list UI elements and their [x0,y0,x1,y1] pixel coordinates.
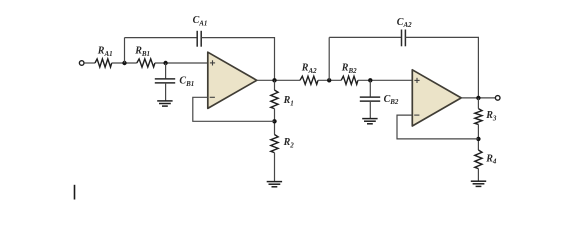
wire input to RA1 [84,62,95,64]
node U1 output junction [272,78,276,82]
ground for R2 [267,182,282,187]
op-amp U2 plus input marker [414,78,419,83]
wire node B down to CB1 [165,63,167,79]
wire U1 output to RA2 [257,79,300,81]
ground for CB2 [362,119,377,124]
output terminal [495,96,500,101]
wire RA2 to RB2 [318,79,341,81]
svg-text:R1: R1 [283,95,294,107]
feedback wire 1 to U1 minus input [193,97,275,121]
resistor RB1 [137,59,155,67]
input terminal [79,61,84,66]
wire R1 to node C [274,109,276,135]
node F junction [476,96,480,100]
wire CB2 to ground [369,101,371,118]
svg-text:RB1: RB1 [134,46,150,58]
wire U1 output node down to R1 [274,80,276,90]
wire top rail 2 right of CA2 [405,37,478,98]
wire RB2 to op-amp U2 + input [358,79,412,81]
wire node A up to feedback rail 1 [124,38,126,63]
wire CB1 to ground [165,83,167,101]
node C junction [272,119,276,123]
feedback wire 2 to U2 minus input [397,115,478,139]
wire top rail 1 right of CA1 [201,38,274,81]
resistor RB2 [341,76,358,84]
resistor RA1 [95,59,112,67]
svg-text:RA1: RA1 [97,46,113,58]
capacitor CA1 [197,31,201,47]
resistor R2 [271,135,278,153]
wire R2 to ground [274,153,276,182]
resistor RA2 [300,76,318,84]
svg-text:RB2: RB2 [341,63,357,75]
op-amp U1 plus input marker [210,60,215,65]
node E junction [368,78,372,82]
svg-text:CB2: CB2 [384,94,399,106]
resistor R4 [475,150,482,169]
svg-text:RA2: RA2 [301,63,317,75]
svg-text:CB1: CB1 [179,76,194,88]
ground for R4 [471,181,486,186]
node D junction [327,78,331,82]
op-amp U2 minus input marker [414,114,419,116]
op-amp U1 [208,52,257,108]
capacitor CA2 [402,30,406,47]
wire node E down to CB2 [369,80,371,97]
svg-text:R2: R2 [283,137,295,149]
node A junction [122,61,126,65]
svg-text:R4: R4 [485,153,497,165]
svg-text:CA2: CA2 [397,17,412,29]
capacitor CB2 [360,97,380,101]
wire node D up to top rail 2 [328,37,330,80]
node B junction [163,61,167,65]
wire RA1 to RB1 [112,62,137,64]
resistor R1 [271,90,278,109]
wire U2 output to output terminal [461,97,495,99]
ground for CB1 [157,101,172,106]
resistor R3 [475,109,482,125]
svg-text:CA1: CA1 [193,15,208,27]
node G junction [476,137,480,141]
wire top rail 1 left of CA1 [125,37,198,39]
capacitor CB1 [155,79,175,83]
wire R4 to ground [477,169,479,181]
op-amp U2 [412,70,461,126]
cursor mark [74,185,76,200]
wire top rail 2 left of CA2 [329,36,401,38]
op-amp U1 minus input marker [210,96,215,98]
wire node F down to R3 [477,98,479,109]
wire RB1 to op-amp U1 + input [155,62,208,64]
svg-text:R3: R3 [485,110,497,122]
wire R3 to node G [477,124,479,150]
